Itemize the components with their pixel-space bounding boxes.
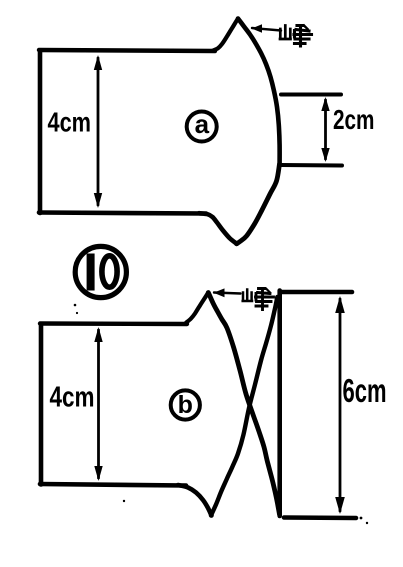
- ext 6cm bottom wire: [284, 515, 356, 520]
- dim 4cm A arrowhead top: [94, 55, 102, 70]
- dim 2cm arrowhead top: [321, 97, 329, 111]
- dim 2cm line: [324, 100, 327, 159]
- dim 2cm arrowhead bottom: [321, 148, 329, 162]
- svg-text:2cm: 2cm: [333, 104, 375, 135]
- dim 4cm B arrowhead bottom: [94, 466, 102, 481]
- svg-text:a: a: [195, 109, 210, 139]
- shape A bottom wire: [39, 213, 206, 214]
- peak arrow A head: [252, 24, 263, 32]
- shape B bottom dip curve: [178, 485, 212, 516]
- shape B rise-to-peak curve: [186, 293, 208, 323]
- peak arrow B head: [214, 288, 225, 297]
- shape A left side wire: [38, 51, 43, 214]
- circle a ring: [187, 112, 217, 142]
- dim 4cm A arrowhead bottom: [94, 193, 102, 208]
- svg-text:6cm: 6cm: [343, 372, 387, 409]
- shape B cross branch to cusp: [211, 297, 277, 516]
- label shanfeng A text: [280, 26, 312, 47]
- svg-text:b: b: [178, 391, 193, 419]
- peak arrow B shaft: [214, 293, 241, 294]
- shape A top wire: [39, 50, 215, 51]
- dim 6cm line: [339, 299, 342, 511]
- dim 6cm arrowhead bottom: [335, 497, 345, 514]
- shape B cross branch from peak: [208, 293, 279, 515]
- shape A cusp-return curve: [199, 213, 237, 244]
- ext 6cm top wire: [281, 290, 352, 295]
- dim 4cm B line: [97, 330, 100, 478]
- shape B left side wire: [39, 324, 44, 485]
- circle 10 ring: [75, 246, 126, 297]
- dim 4cm A line: [97, 58, 100, 205]
- circle b ring: [171, 390, 200, 419]
- shape A peak descend curve: [238, 19, 280, 165]
- shape B top wire: [40, 321, 187, 326]
- shape A rise-to-peak curve: [213, 19, 238, 51]
- dim 4cm B arrowhead top: [94, 327, 102, 342]
- label shanfeng B text: [243, 289, 274, 310]
- digit 1 of 10: [87, 254, 95, 291]
- shape B right vertical wire: [277, 291, 282, 517]
- digit 0 of 10: [102, 256, 117, 287]
- ext 2cm top wire: [281, 93, 341, 97]
- svg-text:4cm: 4cm: [48, 107, 92, 138]
- shape B bottom wire: [40, 484, 186, 486]
- peak arrow A shaft: [252, 28, 281, 31]
- ext 2cm bottom wire: [281, 163, 342, 168]
- svg-text:4cm: 4cm: [50, 382, 95, 414]
- shape A lower-right swing curve: [237, 164, 280, 244]
- dim 6cm arrowhead top: [335, 296, 345, 313]
- speckle dots: [74, 304, 369, 525]
